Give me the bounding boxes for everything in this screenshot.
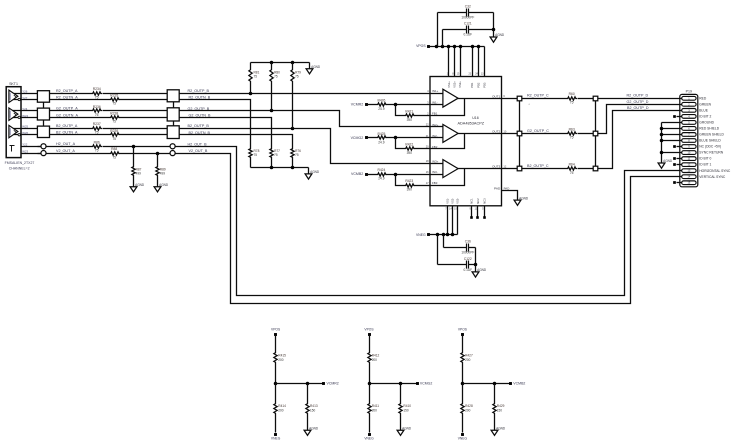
- svg-text:OUT3: OUT3: [492, 165, 500, 169]
- svg-text:V2_OUT_A: V2_OUT_A: [56, 149, 75, 153]
- pin 9 NC1: [470, 198, 474, 219]
- no-connect pin 15: [673, 181, 681, 184]
- svg-text:AGND: AGND: [311, 65, 321, 69]
- resistor R79: [291, 63, 301, 129]
- pin 24 PD2: [475, 47, 480, 88]
- wire V b: [120, 152, 171, 156]
- wire H a: [61, 146, 92, 148]
- net B2_OUTP_B: [188, 124, 210, 128]
- ground PAD: [514, 196, 529, 205]
- wire B2_OUTN to term: [180, 135, 293, 148]
- svg-text:VCMB2: VCMB2: [351, 172, 363, 176]
- net V2_OUT_A: [56, 149, 75, 153]
- pin label Y27: [22, 96, 28, 100]
- pin 13 PD3: [481, 47, 486, 88]
- net G2_OUTP_C: [527, 129, 549, 133]
- svg-text:P19: P19: [686, 89, 692, 93]
- svg-text:PAD: PAD: [494, 186, 501, 190]
- wire V2_OUT_A stub: [22, 153, 41, 155]
- svg-text:390: 390: [407, 151, 413, 155]
- resistor R81: [249, 63, 260, 94]
- pin 12 OUT3: [492, 165, 507, 169]
- resistor R64: [567, 163, 578, 175]
- net V2_OUT_B: [189, 149, 208, 153]
- op-amp U16 outline: [430, 77, 502, 206]
- net H2_OUT_A: [56, 142, 76, 146]
- svg-text:GREEN: GREEN: [699, 102, 711, 106]
- ground terminator bottom: [305, 168, 320, 180]
- net R2_OUTP_C: [527, 94, 549, 98]
- connector P19 pin 2: [682, 102, 712, 106]
- resistor R88: [110, 147, 121, 159]
- pin 23 PD1: [469, 47, 474, 88]
- wire N3 b: [120, 134, 168, 136]
- buffer SKT1 channel B: [9, 125, 20, 137]
- svg-text:FB1: FB1: [432, 112, 438, 116]
- connector P19 pin 12: [682, 163, 712, 167]
- resistor R80: [270, 63, 280, 111]
- svg-text:V2_OUT_B: V2_OUT_B: [189, 149, 208, 153]
- pin 10 OUT2: [492, 129, 507, 133]
- wire VNEG rail: [429, 233, 458, 237]
- svg-text:VPOS: VPOS: [458, 327, 468, 331]
- filter box FB2a: [167, 90, 179, 102]
- svg-text:ID BIT 2: ID BIT 2: [699, 114, 711, 118]
- connector SKT1 part label: [5, 161, 35, 171]
- svg-text:NC (DDC +5V): NC (DDC +5V): [699, 145, 721, 149]
- svg-text:150: 150: [403, 408, 408, 412]
- svg-text:VCMB2: VCMB2: [513, 382, 525, 386]
- pin label Y24: [22, 107, 28, 111]
- svg-text:ID BIT 1: ID BIT 1: [699, 163, 711, 167]
- resistor R234: [92, 87, 103, 99]
- svg-text:CHANNEL=2: CHANNEL=2: [9, 167, 30, 171]
- ground R87: [130, 177, 145, 192]
- svg-text:AGND: AGND: [477, 268, 487, 272]
- jumper circle V1: [41, 151, 46, 156]
- resistor R87: [132, 147, 142, 177]
- svg-text:24.9: 24.9: [378, 140, 384, 144]
- pin 3 IN1-: [427, 100, 437, 104]
- svg-text:R88: R88: [111, 147, 117, 151]
- connector P19 pin 4: [682, 114, 712, 118]
- connector P19 pin 7: [682, 132, 725, 136]
- svg-text:75: 75: [570, 100, 574, 104]
- svg-text:R236: R236: [93, 105, 101, 109]
- ground R89: [154, 177, 169, 192]
- svg-text:VCMR2: VCMR2: [327, 382, 339, 386]
- svg-text:HORIZONTAL SYNC: HORIZONTAL SYNC: [699, 169, 731, 173]
- svg-text:R2_OUTP_B: R2_OUTP_B: [188, 89, 210, 93]
- svg-text:SYNC RETURN: SYNC RETURN: [699, 151, 723, 155]
- pin 2 FB1: [427, 111, 438, 115]
- svg-text:VS1+: VS1+: [447, 81, 451, 88]
- pin 16 IN3-: [426, 170, 438, 174]
- svg-text:BLUE SHIELD: BLUE SHIELD: [699, 139, 721, 143]
- wire H to jumper: [38, 146, 61, 148]
- svg-text:VS3-: VS3-: [456, 198, 460, 204]
- svg-text:VNEG: VNEG: [271, 437, 281, 441]
- svg-text:Y26: Y26: [22, 89, 28, 93]
- svg-text:R235: R235: [110, 94, 118, 98]
- svg-text:R2_OUTP_D: R2_OUTP_D: [627, 94, 649, 98]
- pin 15 VS3+: [457, 47, 462, 88]
- svg-text:PD2: PD2: [477, 82, 481, 88]
- svg-text:FB3: FB3: [432, 181, 438, 185]
- wire G2_OUTP_D: [598, 105, 682, 134]
- connector P19 pin 14: [682, 175, 726, 179]
- wire B2_OUTP to IN3+: [180, 127, 431, 164]
- svg-text:ID BIT 0: ID BIT 0: [699, 157, 711, 161]
- svg-text:75: 75: [274, 75, 278, 79]
- svg-text:R2_OUTP_A: R2_OUTP_A: [56, 89, 78, 93]
- pin 19 VS3-: [454, 198, 459, 235]
- svg-text:R63: R63: [569, 127, 575, 131]
- resistor R239: [110, 129, 121, 141]
- header column 1: [517, 96, 530, 171]
- pin label W24: [22, 114, 28, 118]
- op-amp U16 amp2: [431, 124, 502, 148]
- svg-text:150: 150: [310, 408, 315, 412]
- wire G2_OUTN_A stub: [12, 117, 38, 119]
- svg-text:AGND: AGND: [310, 170, 320, 174]
- wire H2_OUT_A stub: [22, 146, 41, 148]
- svg-text:ADA4853ACPZ: ADA4853ACPZ: [457, 121, 484, 125]
- pin 20 FB2: [426, 145, 438, 149]
- svg-text:C36: C36: [465, 239, 471, 243]
- svg-text:AGND: AGND: [663, 159, 673, 163]
- wire VSYNC route: [176, 154, 682, 304]
- connector P19 pin 6: [682, 126, 720, 130]
- svg-text:200: 200: [278, 408, 283, 412]
- svg-text:390: 390: [407, 188, 413, 192]
- net B2_OUTN_A: [56, 131, 78, 135]
- no-connect pin 4: [673, 115, 681, 118]
- svg-text:BLUE: BLUE: [699, 108, 708, 112]
- pin label Y22: [22, 143, 28, 147]
- wire P1 a: [50, 93, 92, 95]
- resistor R235: [110, 94, 121, 106]
- pin PAD: [494, 186, 509, 190]
- pin 21 IN2-: [426, 134, 438, 138]
- wire N3 a: [50, 134, 110, 136]
- svg-text:150: 150: [497, 408, 502, 412]
- svg-text:R425: R425: [377, 132, 385, 136]
- no-connect pin 11: [673, 157, 681, 160]
- connector P19 pin 11: [682, 157, 712, 161]
- no-connect pin 12: [673, 163, 681, 166]
- svg-text:AGND: AGND: [495, 33, 505, 37]
- svg-text:390: 390: [407, 118, 413, 122]
- wire V to jumper: [38, 153, 61, 155]
- svg-text:Y22: Y22: [22, 143, 28, 147]
- svg-text:PD3: PD3: [482, 82, 486, 88]
- svg-text:VNEG: VNEG: [364, 437, 374, 441]
- svg-text:R2_OUTP_C: R2_OUTP_C: [527, 94, 549, 98]
- svg-text:H2_OUT_B: H2_OUT_B: [188, 142, 208, 146]
- jumper circle V2: [170, 151, 175, 156]
- resistor R76: [291, 148, 301, 168]
- jumper circle H1: [41, 144, 46, 149]
- svg-text:W24: W24: [22, 114, 28, 118]
- resistor R86: [92, 140, 103, 152]
- svg-text:VNEG: VNEG: [458, 437, 468, 441]
- svg-text:B2_OUTP_B: B2_OUTP_B: [188, 124, 210, 128]
- wire V a: [61, 153, 110, 155]
- connector P19 pin 1: [682, 96, 707, 100]
- svg-text:R60: R60: [569, 92, 575, 96]
- svg-text:75: 75: [295, 153, 299, 157]
- wire R63 to header2: [578, 133, 594, 135]
- pin label W25: [22, 125, 28, 129]
- ground terminator top: [306, 63, 321, 74]
- net VNEG bottom: [416, 233, 430, 237]
- connector P19 outline: [680, 89, 698, 187]
- svg-text:VS1-: VS1-: [445, 198, 449, 204]
- net H2_OUT_B: [188, 142, 208, 146]
- wire R2_OUTP to IN1+: [180, 92, 431, 96]
- pin 8 VS2+: [452, 47, 456, 88]
- svg-text:AGND: AGND: [135, 183, 145, 187]
- svg-text:W26: W26: [22, 131, 28, 135]
- svg-text:VCMR2: VCMR2: [351, 103, 363, 107]
- filter box FB2c: [167, 126, 179, 139]
- svg-text:AGND: AGND: [519, 196, 529, 200]
- connector P19 pin 10: [682, 151, 724, 155]
- svg-text:IN2-: IN2-: [432, 134, 438, 138]
- svg-text:H2_OUT_A: H2_OUT_A: [56, 142, 76, 146]
- svg-text:NC3: NC3: [482, 198, 486, 204]
- filter box FB1a: [37, 91, 49, 103]
- connector P19 pin 15: [682, 181, 696, 185]
- pin 14 VS2-: [449, 198, 454, 235]
- svg-text:75: 75: [112, 120, 116, 124]
- svg-text:75: 75: [570, 171, 574, 175]
- svg-text:VCMG2: VCMG2: [420, 382, 433, 386]
- svg-text:IN3-: IN3-: [432, 170, 438, 174]
- svg-text:VS2+: VS2+: [452, 81, 456, 88]
- wire box chain 1: [43, 103, 45, 109]
- connector P19 pin 8: [682, 139, 722, 143]
- net VCMB2 input network: [351, 168, 431, 192]
- pin 5 NC3: [482, 198, 486, 219]
- capacitor C121: [443, 22, 496, 47]
- svg-text:OUT2: OUT2: [492, 130, 500, 134]
- svg-text:R238: R238: [110, 112, 118, 116]
- svg-text:R239: R239: [110, 129, 118, 133]
- filter box FB1c: [37, 126, 49, 137]
- wire OUT1 row: [502, 98, 567, 100]
- svg-text:B2_OUTP_C: B2_OUTP_C: [527, 164, 549, 168]
- shield symbol inside SKT1: [10, 146, 15, 152]
- svg-text:B2_OUTP_D: B2_OUTP_D: [627, 106, 649, 110]
- pin 17 FB3: [426, 181, 438, 185]
- svg-text:75: 75: [570, 136, 574, 140]
- wire box chain 2: [43, 121, 45, 127]
- connector P19 pin 9: [682, 145, 721, 149]
- svg-text:IN3+: IN3+: [432, 159, 439, 163]
- net B2_OUTN_B: [189, 131, 211, 135]
- svg-text:AGND: AGND: [496, 426, 506, 430]
- jumper circle H2: [170, 144, 175, 149]
- svg-text:VPOS: VPOS: [416, 44, 426, 48]
- svg-text:C121: C121: [464, 22, 472, 26]
- svg-text:499: 499: [136, 172, 141, 176]
- connector P19 pin 5: [682, 120, 715, 124]
- net R2_OUTN_B: [189, 96, 211, 100]
- buffer SKT1 channel R: [9, 90, 20, 102]
- wire G2_OUTP to IN2+: [180, 109, 431, 127]
- connector P19 pin 13: [682, 169, 731, 173]
- resistor R63: [567, 127, 578, 139]
- pin 4 IN1+: [427, 89, 438, 93]
- pin PAD wire: [502, 191, 518, 199]
- op-amp U16 amp1: [431, 89, 502, 115]
- svg-text:75: 75: [254, 75, 258, 79]
- resistor R78: [249, 148, 260, 168]
- net G2_OUTN_B: [189, 114, 211, 118]
- svg-text:FB2: FB2: [432, 145, 438, 149]
- svg-text:75: 75: [95, 130, 99, 134]
- no-connect pin 9: [673, 145, 681, 148]
- svg-text:B2_OUTP_A: B2_OUTP_A: [56, 124, 78, 128]
- net VPOS top: [416, 44, 430, 48]
- svg-text:10000PF: 10000PF: [461, 16, 474, 20]
- wire N1 a: [50, 99, 110, 101]
- pin label W23: [22, 149, 28, 153]
- ground P19 bus: [658, 159, 673, 168]
- capacitor C122: [438, 235, 478, 272]
- svg-text:GREEN SHIELD: GREEN SHIELD: [699, 133, 724, 137]
- svg-text:G2_OUTP_C: G2_OUTP_C: [527, 129, 549, 133]
- net G2_OUTP_B: [188, 107, 210, 111]
- svg-text:75: 75: [95, 95, 99, 99]
- capacitor C36: [444, 235, 476, 265]
- wire N2 b: [120, 117, 168, 119]
- wire R2_OUTN to term: [180, 100, 251, 148]
- svg-text:200: 200: [465, 408, 470, 412]
- svg-text:0.1UF: 0.1UF: [463, 268, 472, 272]
- wire OUT2 row: [502, 133, 567, 135]
- svg-text:75: 75: [112, 102, 116, 106]
- net R2_OUTP_A: [56, 89, 78, 93]
- svg-text:200: 200: [372, 358, 377, 362]
- svg-text:R421: R421: [405, 109, 413, 113]
- svg-text:VERTICAL SYNC: VERTICAL SYNC: [699, 175, 726, 179]
- svg-text:GROUND: GROUND: [699, 121, 714, 125]
- svg-text:C122: C122: [464, 257, 472, 261]
- svg-text:PD1: PD1: [470, 82, 474, 88]
- wire box chain 3: [173, 102, 175, 108]
- wire N2 a: [50, 117, 110, 119]
- wire R60 to header2: [578, 98, 594, 100]
- net G2_OUTN_A: [56, 113, 78, 117]
- wire R2_OUTP_A stub: [9, 93, 38, 95]
- wire G2_OUTN to term: [180, 118, 272, 148]
- vcm generator VCMG2: [364, 327, 432, 440]
- wire N1 b: [120, 99, 168, 101]
- svg-text:R426: R426: [377, 98, 385, 102]
- svg-text:U16: U16: [472, 116, 479, 120]
- connector SKT1 outline: [6, 82, 21, 157]
- net G2_OUTP_D: [627, 100, 649, 104]
- svg-text:200: 200: [278, 358, 283, 362]
- wire OUT3 row: [502, 168, 567, 170]
- net R2_OUTN_A: [56, 95, 78, 99]
- pin label Y26: [22, 89, 28, 93]
- svg-text:VCMG2: VCMG2: [351, 136, 364, 140]
- svg-text:R422: R422: [405, 143, 413, 147]
- svg-text:IN2+: IN2+: [432, 123, 439, 127]
- wire B2_OUTP_A stub: [9, 128, 38, 130]
- pin 11 NC2: [475, 198, 480, 219]
- svg-text:AGND: AGND: [159, 183, 169, 187]
- svg-text:VS3+: VS3+: [458, 81, 462, 88]
- net VCMR2 input network: [351, 98, 431, 121]
- wire R64 to header2: [578, 168, 594, 170]
- wire box chain 4: [173, 122, 175, 126]
- header column 2: [593, 96, 598, 171]
- svg-text:Y24: Y24: [22, 107, 28, 111]
- svg-text:R234: R234: [93, 87, 101, 91]
- wire P1 b: [103, 93, 168, 95]
- filter box FB1b: [37, 108, 49, 120]
- wire R2_OUTN_A stub: [12, 99, 38, 101]
- svg-text:75: 75: [112, 155, 116, 159]
- buffer SKT1 channel G: [9, 108, 20, 120]
- resistor R237: [92, 122, 103, 134]
- pin label W26: [22, 131, 28, 135]
- svg-text:W25: W25: [22, 125, 28, 129]
- filter box FB2b: [167, 108, 179, 121]
- svg-text:Y27: Y27: [22, 96, 28, 100]
- svg-text:10000PF: 10000PF: [461, 250, 474, 254]
- wire P2 a: [50, 110, 92, 112]
- wire H b: [103, 145, 171, 149]
- pin 7 VS1-: [445, 198, 449, 235]
- svg-text:VNEG: VNEG: [416, 233, 426, 237]
- wire B2_OUTP_D: [598, 111, 682, 169]
- svg-text:RED SHIELD: RED SHIELD: [699, 127, 719, 131]
- wire P3 b: [103, 128, 168, 130]
- wire R2_OUTP_D: [598, 98, 682, 100]
- svg-text:24.9: 24.9: [378, 176, 384, 180]
- net B2_OUTP_D: [627, 106, 649, 110]
- wire terminator top rail: [251, 61, 310, 65]
- svg-text:VPOS: VPOS: [271, 327, 281, 331]
- svg-text:75: 75: [254, 153, 258, 157]
- pin 22 IN2+: [426, 123, 439, 127]
- net B2_OUTP_C: [527, 164, 549, 168]
- svg-text:PAD: PAD: [504, 186, 510, 190]
- svg-text:75: 75: [274, 153, 278, 157]
- net R2_OUTP_B: [188, 89, 210, 93]
- wire G2_OUTP_A stub: [9, 110, 38, 112]
- svg-text:75: 75: [112, 137, 116, 141]
- svg-text:200: 200: [465, 358, 470, 362]
- svg-text:75: 75: [95, 113, 99, 117]
- svg-text:75: 75: [95, 149, 99, 153]
- resistor R60: [567, 92, 578, 104]
- pin 1 VS1+: [447, 47, 451, 88]
- svg-text:R86: R86: [94, 140, 100, 144]
- svg-text:VS2-: VS2-: [451, 198, 455, 204]
- svg-text:OUT1: OUT1: [492, 94, 500, 98]
- vcm generator VCMR2: [271, 327, 339, 440]
- svg-text:NC1: NC1: [470, 198, 474, 204]
- connector P19 pin 3: [682, 108, 709, 112]
- svg-text:C32: C32: [465, 5, 471, 9]
